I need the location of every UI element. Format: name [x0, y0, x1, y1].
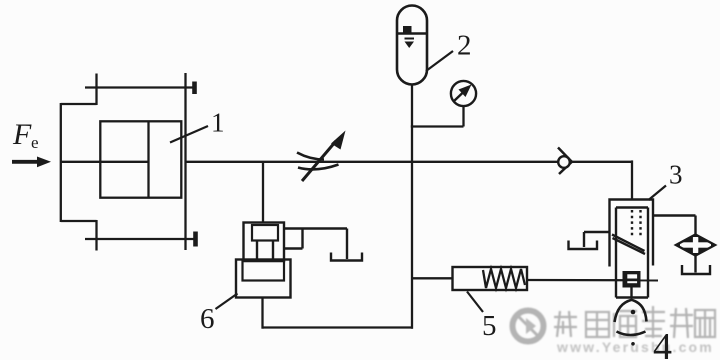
svg-text:F: F: [12, 118, 32, 151]
svg-text:5: 5: [482, 310, 497, 342]
svg-text:www.Yerushu.com: www.Yerushu.com: [556, 339, 714, 355]
svg-text:4: 4: [653, 326, 672, 360]
svg-text:6: 6: [200, 303, 215, 335]
svg-text:e: e: [31, 133, 39, 152]
svg-text:2: 2: [457, 30, 472, 62]
svg-text:1: 1: [211, 108, 225, 138]
svg-text:3: 3: [669, 160, 683, 190]
